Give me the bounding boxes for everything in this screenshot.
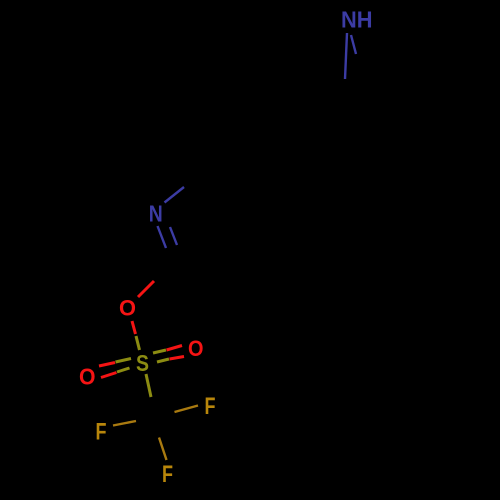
svg-text:S: S <box>136 350 149 376</box>
svg-text:F: F <box>162 461 173 488</box>
svg-text:N: N <box>149 201 163 227</box>
svg-text:NH: NH <box>341 7 373 33</box>
svg-text:O: O <box>188 336 204 361</box>
svg-text:F: F <box>205 393 216 420</box>
svg-text:O: O <box>119 295 136 320</box>
svg-text:O: O <box>79 364 96 390</box>
svg-text:F: F <box>96 418 107 445</box>
